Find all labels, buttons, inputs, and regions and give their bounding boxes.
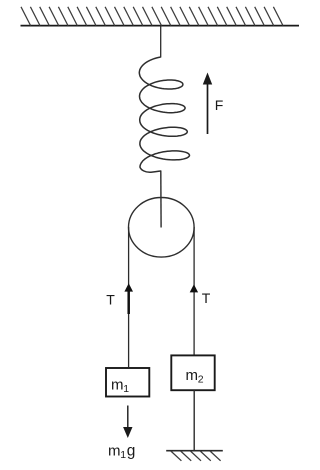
rod from spring to pulley axle [160,171,162,228]
label m1 [111,377,129,396]
svg-text:T: T [202,290,211,306]
label T right [202,290,211,306]
tension arrow T left [124,283,133,314]
string m2 to ground [193,390,195,451]
ground line [166,450,223,452]
label T left [106,292,115,308]
rod from ceiling to spring [160,26,162,58]
svg-text:1: 1 [120,449,126,461]
tension arrow T right [190,284,198,292]
ceiling hatching [21,7,283,26]
label F [215,97,224,113]
svg-text:m: m [111,377,124,394]
spring [139,57,189,172]
svg-text:1: 1 [123,383,129,395]
svg-text:T: T [106,292,115,308]
mass m2 box [171,355,214,390]
pulley [129,198,195,258]
force arrow F [203,73,212,135]
weight arrow m1g [123,406,132,439]
svg-text:m: m [186,367,199,384]
label m1g [108,442,135,461]
left string [128,227,130,367]
ceiling line [21,25,300,27]
label m2 [186,367,204,386]
right string [193,227,195,355]
svg-text:g: g [127,442,136,459]
svg-text:m: m [108,442,121,459]
mass m1 box [106,368,149,397]
ground hatching [171,451,221,461]
svg-text:F: F [215,97,224,113]
svg-text:2: 2 [198,374,204,386]
